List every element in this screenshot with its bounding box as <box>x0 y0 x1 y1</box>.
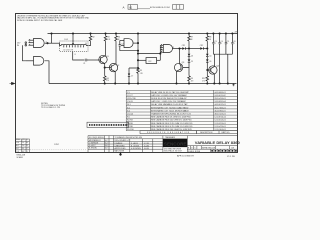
wire IC2 output up to IC1d <box>159 45 161 60</box>
svg-text:2-4: 2-4 <box>22 145 24 147</box>
svg-text:DELAY LINE VARIABLE 10-50 NS 8: DELAY LINE VARIABLE 10-50 NS 8 TAP <box>151 103 188 106</box>
svg-text:CR2: CR2 <box>200 45 203 47</box>
wire IC1d output <box>173 48 183 50</box>
svg-text:4-2: 4-2 <box>22 151 24 153</box>
wire Q4 collector up to cap bank <box>214 54 216 66</box>
svg-text:DELAY LINE 50 NS 10 TAP 100 OH: DELAY LINE 50 NS 10 TAP 100 OHM IMP <box>151 91 189 94</box>
svg-text:TRANSISTOR NPN 2N3904 SILICON: TRANSISTOR NPN 2N3904 SILICON TO-92 <box>151 113 192 116</box>
svg-text:12-10K14-01: 12-10K14-01 <box>214 117 226 119</box>
svg-text:48-10124-01: 48-10124-01 <box>214 114 226 116</box>
diode CR5 <box>188 57 190 60</box>
svg-text:.1: .1 <box>221 43 222 45</box>
diode CR6 <box>206 57 208 60</box>
svg-text:R2.R3: R2.R3 <box>127 120 134 122</box>
zone arrow bottom border <box>119 152 121 156</box>
svg-text:DESCRIPTION: DESCRIPTION <box>200 132 213 134</box>
svg-text:R. ENGEL: R. ENGEL <box>89 148 97 150</box>
svg-text:VARIABLE DELAY 8360: VARIABLE DELAY 8360 <box>195 140 241 145</box>
gate IC1c <box>124 39 133 48</box>
wire gate IC1b output to ground rail <box>45 61 50 84</box>
svg-text:DIM ±.005 ANG ±1: DIM ±.005 ANG ±1 <box>115 139 129 142</box>
svg-text:1 2 3 4 5 6 7 8: 1 2 3 4 5 6 7 8 <box>63 49 73 51</box>
wire DL1 bottom tap <box>73 52 85 61</box>
capacitor C2 <box>119 41 121 45</box>
general notes text block (top-left) <box>17 14 90 22</box>
svg-text:CAP DISC .01 MFD 20% 50V CERAM: CAP DISC .01 MFD 20% 50V CERAMIC <box>151 94 188 97</box>
capacitor C5 <box>225 34 227 43</box>
capacitor bank C3-C6 <box>213 53 232 55</box>
scale row with sheet boxes <box>211 149 235 152</box>
revision block ECN note (top) <box>123 5 184 10</box>
wire Q3 emitter to ground <box>176 71 178 83</box>
svg-text:RES CARBON FILM 4.7K OHM 5% 1/: RES CARBON FILM 4.7K OHM 5% 1/4W FXD <box>151 125 193 128</box>
svg-text:1-1: 1-1 <box>22 142 24 144</box>
ground symbol right <box>232 84 234 86</box>
resistor R8 <box>206 34 208 36</box>
svg-text:46-12184-01: 46-12184-01 <box>214 107 226 109</box>
svg-text:10: 10 <box>85 43 87 45</box>
svg-text:CR1: CR1 <box>182 45 185 47</box>
inductor winding DL1 <box>60 43 88 45</box>
svg-text:C7: C7 <box>131 75 133 77</box>
diode CR2 <box>200 47 203 50</box>
svg-text:MR STANDLEY: MR STANDLEY <box>89 139 102 142</box>
svg-text:2.2K: 2.2K <box>107 39 110 41</box>
svg-text:8: 8 <box>75 54 76 56</box>
svg-text:.1: .1 <box>214 43 215 45</box>
svg-text:470: 470 <box>202 80 205 82</box>
wire CR6 to Q4 base <box>207 62 211 70</box>
capacitor C6 <box>231 34 233 43</box>
svg-text:ECN-10684 6-12-84: ECN-10684 6-12-84 <box>150 7 170 9</box>
svg-text:DIODE SILICON 1N4148 75V 10MA: DIODE SILICON 1N4148 75V 10MA GP <box>151 97 187 100</box>
svg-text:Q1-Q4: Q1-Q4 <box>127 114 134 116</box>
svg-text:6-9: 6-9 <box>105 148 108 150</box>
svg-text:3: 3 <box>46 42 47 44</box>
svg-text:C5: C5 <box>227 41 229 43</box>
wire node C to +5V rail <box>137 34 139 44</box>
resistor R3 <box>105 34 107 36</box>
svg-text:12-10474-01: 12-10474-01 <box>214 126 226 128</box>
svg-text:.1: .1 <box>227 43 228 45</box>
wire branch to CR7 <box>129 68 138 74</box>
IC2 one-shot box <box>146 58 157 64</box>
svg-text:R2: R2 <box>92 37 94 39</box>
svg-text:24-10831-04: 24-10831-04 <box>214 101 226 103</box>
resistor R6 <box>104 68 106 76</box>
svg-text:128: 128 <box>231 147 234 149</box>
svg-text:44-10684-01: 44-10684-01 <box>214 92 226 94</box>
drawing border frame <box>16 14 238 153</box>
svg-text:R10: R10 <box>202 78 205 80</box>
wire +5V top rail <box>48 33 238 35</box>
resistor R10 <box>206 70 208 76</box>
svg-text:1K: 1K <box>191 39 193 41</box>
delay line taps <box>64 46 84 48</box>
parts list table <box>126 90 237 130</box>
svg-text:SCALE: NONE: SCALE: NONE <box>188 150 201 153</box>
gate IC1a <box>34 39 45 48</box>
below border annotations <box>17 154 236 159</box>
svg-text:DRAWN: DRAWN <box>115 142 123 145</box>
transistor Q1 <box>99 55 107 63</box>
wire gate1 output node A <box>45 42 60 44</box>
svg-text:46-11884-01: 46-11884-01 <box>214 110 226 112</box>
title block <box>88 136 238 153</box>
svg-text:R9: R9 <box>191 78 193 80</box>
diode CR4 <box>206 49 208 54</box>
svg-text:TP-2 DL 8360 D 1 JTD: TP-2 DL 8360 D 1 JTD <box>41 107 61 109</box>
svg-text:WITH NO SIGNAL INPUT. SCOPE 83: WITH NO SIGNAL INPUT. SCOPE 8360 CAL GEN <box>17 19 63 22</box>
svg-text:C3-C6: C3-C6 <box>127 101 134 103</box>
svg-text:.1: .1 <box>233 43 234 45</box>
input terminal J2 <box>25 44 27 46</box>
svg-text:AREA 8360-128: AREA 8360-128 <box>202 146 215 149</box>
wire node C down <box>137 43 139 68</box>
svg-text:24-10611-02: 24-10611-02 <box>214 95 226 97</box>
terminal strip TS1 <box>87 122 129 127</box>
svg-text:C6: C6 <box>233 41 235 43</box>
svg-text:MATL NONE: MATL NONE <box>115 150 126 153</box>
wire node B to Q2 base <box>105 67 112 69</box>
svg-text:R3: R3 <box>107 37 109 39</box>
svg-text:C-3: C-3 <box>16 151 19 153</box>
svg-text:C2.C7: C2.C7 <box>127 95 134 97</box>
gate IC1d <box>163 45 172 53</box>
svg-text:C6: C6 <box>209 61 211 63</box>
svg-text:JT-1 2B: JT-1 2B <box>227 156 235 158</box>
transistor Q4 <box>209 66 217 74</box>
transistor Q2 <box>109 63 117 71</box>
diode CR7 <box>128 74 130 77</box>
dotted fold line <box>30 149 87 151</box>
svg-text:B-2: B-2 <box>16 148 19 150</box>
notes text lower left <box>41 103 66 109</box>
wire feedback C2 loop <box>120 50 138 52</box>
svg-text:B: B <box>27 145 28 147</box>
svg-text:R5: R5 <box>140 70 142 72</box>
wire Q3 collector up <box>179 49 181 64</box>
zone arrow left border <box>10 82 15 84</box>
svg-text:RES CARBON FILM 1K OHM 5% 1/4W: RES CARBON FILM 1K OHM 5% 1/4W FXD <box>151 116 191 119</box>
svg-text:3200 SENCORE DRIVE: 3200 SENCORE DRIVE <box>164 148 181 150</box>
svg-text:CONT.: CONT. <box>54 144 60 146</box>
wire node A to +5V rail <box>51 34 53 44</box>
wire ground bottom rail <box>49 83 237 85</box>
left small block table <box>16 139 30 152</box>
wire Q1 emitter to node B <box>104 64 106 68</box>
svg-text:28-10414-01: 28-10414-01 <box>214 98 226 100</box>
svg-text:470: 470 <box>106 80 109 82</box>
wire IC1c output node C <box>133 42 138 44</box>
svg-text:RES CARBON FILM 100 OHM 5% 1/4: RES CARBON FILM 100 OHM 5% 1/4W FXD <box>151 119 192 122</box>
svg-text:PART NO.: PART NO. <box>222 131 231 134</box>
svg-text:8360: 8360 <box>16 139 20 141</box>
delay line DL1 dashed enclosure <box>60 41 89 52</box>
svg-text:6-8-84: 6-8-84 <box>144 148 149 150</box>
svg-text:C3: C3 <box>214 41 216 43</box>
svg-text:C1: C1 <box>83 63 85 65</box>
svg-text:12-10014-01: 12-10014-01 <box>214 120 226 122</box>
capacitor C4 <box>219 34 221 43</box>
transistor Q3 <box>174 63 182 71</box>
wire CR5 to Q3 base <box>183 62 189 67</box>
svg-text:REFERENCE DESIGNATION: REFERENCE DESIGNATION <box>147 131 190 134</box>
resistor R5 <box>137 68 140 73</box>
svg-text:128: 128 <box>16 142 19 144</box>
svg-text:R7.R8: R7.R8 <box>127 126 134 128</box>
svg-text:1K: 1K <box>209 39 211 41</box>
wire bank drop 2 <box>227 54 229 83</box>
svg-text:APPROVED: APPROVED <box>115 147 127 150</box>
svg-text:H. BOWDEN: H. BOWDEN <box>131 148 142 150</box>
svg-text:SCHEM: SCHEM <box>17 157 24 159</box>
svg-text:R6: R6 <box>106 78 108 80</box>
value labels <box>46 39 211 82</box>
diode CR1 <box>182 47 185 50</box>
svg-text:TOLERANCE UNLESS NOTED DIM: TOLERANCE UNLESS NOTED DIM <box>115 136 143 139</box>
svg-text:APR 10 1984 KH: APR 10 1984 KH <box>177 154 194 157</box>
resistor R4 (Q2 collector load) <box>115 34 117 36</box>
input terminal J1 <box>25 42 27 44</box>
capacitor C1 <box>85 59 87 62</box>
svg-text:2.2K: 2.2K <box>140 73 143 75</box>
resistor R2 <box>90 34 92 36</box>
wire C1 to Q1 base <box>87 59 101 61</box>
svg-text:RES CARBON FILM 2.2K OHM 5% 1/: RES CARBON FILM 2.2K OHM 5% 1/4W FXD <box>151 122 193 125</box>
resistor R7 <box>188 34 190 36</box>
svg-text:12-10224-01: 12-10224-01 <box>214 123 226 125</box>
wire Q2 emitter to ground rail <box>114 72 116 84</box>
wire Q4 emitter down <box>213 74 215 84</box>
svg-text:C3: C3 <box>191 55 193 57</box>
svg-text:CAP DISC .1 MFD 20% 25V CERAMI: CAP DISC .1 MFD 20% 25V CERAMIC <box>151 100 187 103</box>
parts list header band <box>140 131 238 134</box>
diode CR3 <box>188 49 190 54</box>
wiper arrow from +5V rail to DL1 <box>72 34 74 44</box>
capacitor C3 <box>212 34 214 43</box>
wire node C to gate IC1d inputs <box>138 53 160 55</box>
svg-text:3-1: 3-1 <box>22 148 24 150</box>
svg-text:44-10612-01: 44-10612-01 <box>214 104 226 106</box>
svg-text:CR1-CR6: CR1-CR6 <box>127 98 137 100</box>
svg-text:SENCORE: SENCORE <box>164 142 187 148</box>
svg-text:R8: R8 <box>209 37 211 39</box>
resistor R9 <box>188 68 190 76</box>
gate IC1b <box>34 57 44 66</box>
svg-text:470: 470 <box>191 80 194 82</box>
svg-text:C4: C4 <box>209 55 211 57</box>
svg-text:NO. REQD MODEL: NO. REQD MODEL <box>89 137 104 139</box>
svg-text:1K: 1K <box>118 39 120 41</box>
svg-text:R4-R6: R4-R6 <box>127 123 134 125</box>
wire bank drop 1 <box>219 54 221 83</box>
svg-text:INTEGRATED CKT 74121 MONOSTABL: INTEGRATED CKT 74121 MONOSTABLE <box>151 109 189 112</box>
svg-text:R7: R7 <box>191 37 193 39</box>
svg-text:R9.R10: R9.R10 <box>127 129 135 131</box>
svg-text:C5: C5 <box>191 61 193 63</box>
svg-text:C4: C4 <box>221 41 223 43</box>
svg-text:INTEGRATED CKT 74LS00 QUAD NAN: INTEGRATED CKT 74LS00 QUAD NAND <box>151 106 189 109</box>
svg-text:R4: R4 <box>118 37 120 39</box>
wire input net to gate IC1b <box>23 45 27 61</box>
svg-text:A: A <box>123 6 125 10</box>
